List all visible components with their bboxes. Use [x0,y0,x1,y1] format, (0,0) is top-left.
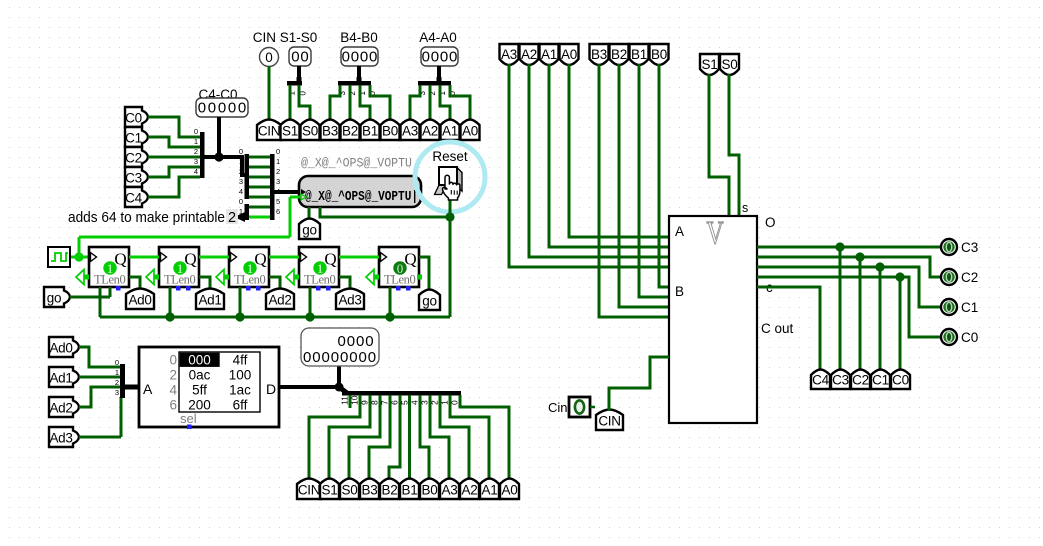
flip-flop cell TLen0 #5 [379,247,419,287]
wire [148,117,200,137]
flip-flop cell TLen0 #2 [159,247,199,287]
output pin A3 [401,120,420,141]
svg-text:Ad0: Ad0 [128,293,151,308]
output pin C3 (mid) [831,370,850,390]
svg-text:go: go [302,223,316,238]
svg-text:3: 3 [194,157,198,166]
bus wire [274,190,299,194]
wire [639,64,669,297]
wire [420,395,429,480]
input pin B3 (top) [590,44,609,65]
svg-text:6: 6 [169,398,177,413]
input pin C3 [125,167,148,187]
probe S1-S0 (value 00) [289,47,311,66]
wire [70,296,110,299]
input pin A1 (top) [540,44,559,65]
output pin B1 (bottom) [400,479,419,500]
svg-text:Ad1: Ad1 [198,293,221,308]
wire [269,277,280,290]
ALU subcircuit U3 [669,216,757,423]
svg-text:TLen0: TLen0 [384,273,415,287]
svg-text:C4: C4 [125,191,142,206]
svg-text:A1: A1 [482,483,498,498]
svg-text:Cin: Cin [548,400,568,415]
svg-text:C0: C0 [961,330,978,345]
wire [879,267,882,371]
output pin CIN [257,120,281,141]
svg-text:C1: C1 [125,131,142,146]
svg-text:S1: S1 [282,124,298,139]
input pin Cin (square) [569,397,590,417]
svg-text:4: 4 [169,383,177,398]
bus junction [335,383,344,392]
wire [269,256,299,259]
wire [410,85,420,119]
wire junction [875,262,884,271]
svg-text:D: D [266,381,276,397]
wire [249,176,270,179]
svg-text:B0: B0 [382,124,398,139]
svg-text:@_X@_^OPS@_VOPTU: @_X@_^OPS@_VOPTU [301,156,412,171]
svg-text:3: 3 [115,388,119,397]
bus wire [125,385,139,390]
svg-text:0: 0 [194,127,198,136]
svg-text:00: 00 [291,49,309,66]
svg-text:s: s [742,201,748,215]
svg-text:Ad3: Ad3 [338,293,361,308]
output pin C1 (mid) [871,370,890,390]
svg-text:1: 1 [276,157,280,166]
svg-text:CIN S1-S0: CIN S1-S0 [253,30,318,45]
input pin C0 [125,107,148,127]
svg-text:00000000: 00000000 [303,349,377,366]
wire junction [855,252,864,261]
svg-text:2: 2 [169,368,177,383]
wire [609,357,669,411]
wire junction [835,242,844,251]
output pin A0 (bottom) [500,479,519,500]
output pin B3 [321,120,340,141]
svg-text:A: A [675,224,684,239]
splitter S1-S0 [287,81,302,86]
wire [99,287,102,317]
svg-text:CIN: CIN [258,124,280,139]
wire [100,316,450,319]
output pin B3 (bottom) [360,479,379,500]
output pin C2 (LED circle) [941,269,957,285]
svg-text:1ac: 1ac [229,383,251,398]
svg-text:0: 0 [239,147,243,156]
output pin B2 (bottom) [380,479,399,500]
svg-text:C1: C1 [961,300,978,315]
svg-text:A2: A2 [422,124,438,139]
output pin C2 (mid) [851,370,870,390]
input pin B0 (top) [650,44,669,65]
svg-text:4ff: 4ff [233,353,248,368]
svg-text:B2: B2 [342,124,358,139]
svg-text:0: 0 [169,353,177,368]
svg-text:A: A [143,381,153,397]
output pin B1 [361,120,380,141]
splitter A4-A0 [418,81,451,86]
svg-text:A2: A2 [521,47,537,62]
probe A4-A0 (value 0000) [421,47,458,66]
output pin go [299,219,320,240]
svg-text:0ac: 0ac [189,368,211,383]
output pin A2 [421,120,440,141]
svg-text:Ad2: Ad2 [49,401,72,416]
svg-text:A3: A3 [402,124,418,139]
svg-text:S0: S0 [722,57,738,72]
input pin S1 (top) [700,54,719,75]
svg-text:2: 2 [228,210,236,226]
svg-text:C out: C out [761,321,794,336]
output pin C3 (LED circle) [941,239,957,255]
wire [339,277,350,290]
svg-text:1: 1 [115,368,119,377]
wire [659,64,669,287]
splitter B (2-bit, spine) [245,204,250,220]
svg-text:1: 1 [194,137,198,146]
output pin S0 (bottom) [340,479,359,500]
input pin Ad2 [49,397,79,417]
wire [289,197,292,237]
wire [129,277,140,290]
wire [460,395,509,480]
wire [430,395,449,480]
wire [370,85,390,119]
splitter A (5-bit, spine) [245,154,250,199]
input pin Ad3 [49,427,79,447]
ROM U2 [139,347,279,427]
bus wire [279,385,339,389]
wire [109,287,112,297]
wire [239,287,242,317]
wire [79,387,120,407]
output pin C0 (mid) [891,370,910,390]
svg-text:Ad0: Ad0 [49,341,72,356]
flip-flop cell TLen0 #3 [229,247,269,287]
output pin A0 [461,120,480,141]
wire junction [235,312,244,321]
wire [249,186,270,189]
wire [349,85,352,119]
wire [320,207,450,217]
keyboard component U1 [299,176,421,207]
svg-text:0: 0 [239,197,243,206]
button Reset [457,168,462,192]
svg-text:0000: 0000 [342,49,379,66]
wire [148,156,200,159]
svg-text:C0: C0 [125,111,142,126]
svg-text:A2: A2 [462,483,478,498]
input pin Ad0 [49,337,79,357]
input pin Ad1 [49,367,79,387]
svg-text:go: go [47,291,61,306]
svg-text:2: 2 [194,147,198,156]
wire [199,256,229,259]
svg-text:C2: C2 [852,373,869,388]
output pin CIN (mid) [596,410,623,431]
wire [297,66,301,80]
wire [339,256,379,259]
svg-text:TLen0: TLen0 [164,273,195,287]
wire [129,256,159,259]
svg-text:Ad1: Ad1 [49,371,72,386]
probe C4-C0 (value 00000) [196,98,248,117]
bus wire [204,157,245,175]
splitter B stem (wedge) [234,212,245,222]
output pin B0 [381,120,400,141]
svg-text:B4-B0: B4-B0 [340,30,378,45]
svg-text:A1: A1 [442,124,458,139]
bus junction [214,152,223,161]
wire [249,216,270,219]
svg-text:0: 0 [276,147,280,156]
output pin A2 (bottom) [460,479,479,500]
output pin go (right) [419,290,440,311]
svg-text:B0: B0 [422,483,438,498]
wire [757,267,941,307]
svg-text:S0: S0 [342,483,358,498]
wire [437,66,441,80]
wire [729,74,739,216]
output pin Ad3 [336,289,364,310]
svg-text:TLen0: TLen0 [304,273,335,287]
wire [148,167,200,177]
input pin C4 [125,187,148,207]
svg-text:B2: B2 [611,47,627,62]
svg-text:4: 4 [239,187,243,196]
constant 2 [226,209,238,224]
splitter D (12-bit) [339,387,347,393]
svg-text:B1: B1 [362,124,378,139]
svg-text:Ad2: Ad2 [268,293,291,308]
svg-text:2: 2 [239,167,243,176]
output pin C4 (mid) [811,370,830,390]
svg-text:B: B [675,284,684,299]
input pin A0 (top) [560,44,579,65]
input pin A2 (top) [520,44,539,65]
wire junction [445,212,454,221]
output pin B2 [341,120,360,141]
svg-text:B3: B3 [591,47,607,62]
halo (selection circle) [415,142,485,212]
svg-text:TLen0: TLen0 [94,273,125,287]
svg-text:C3: C3 [961,240,978,255]
svg-text:TLen0: TLen0 [234,273,265,287]
wire junction [895,272,904,281]
svg-text:A4-A0: A4-A0 [419,30,457,45]
wire [199,277,210,290]
wire [79,436,121,439]
bus wire [337,366,341,387]
input pin go (left) [44,287,70,307]
wire [549,64,669,247]
wire [619,64,669,307]
svg-text:S1: S1 [702,57,718,72]
wire [757,257,941,277]
wire [757,287,820,371]
svg-text:B2: B2 [382,483,398,498]
wire [569,64,669,237]
wire [309,395,360,480]
svg-text:0000: 0000 [338,333,375,350]
output pin Ad1 [196,289,224,310]
wire [309,287,312,317]
svg-text:C0: C0 [892,373,909,388]
wire [148,137,200,147]
wire [429,85,432,119]
wire [249,196,270,199]
svg-text:B1: B1 [631,47,647,62]
svg-text:B1: B1 [402,483,418,498]
svg-text:O: O [765,215,776,230]
svg-text:@_X@_^OPS@_VOPTU|: @_X@_^OPS@_VOPTU| [305,189,418,205]
wire [529,64,669,257]
svg-text:adds 64 to make printable: adds 64 to make printable [68,210,225,226]
svg-text:S0: S0 [302,124,318,139]
svg-text:sel: sel [180,411,197,426]
output pin S1 [281,120,300,141]
svg-text:C2: C2 [961,270,978,285]
wire [449,193,452,317]
wire [249,206,270,209]
svg-text:2: 2 [115,378,119,387]
svg-text:C4: C4 [812,373,829,388]
wire [440,85,450,119]
wire [509,64,669,267]
wire [308,207,311,219]
cursor (hand pointer) [443,175,460,200]
wire [450,395,489,480]
wire [349,395,380,480]
output pin A3 (bottom) [440,479,459,500]
svg-text:C3: C3 [125,171,142,186]
splitter B4-B0 [338,81,371,86]
wire [120,397,123,437]
svg-text:4: 4 [194,167,198,176]
output pin S0 [301,120,320,141]
input pin S0 (top) [720,54,739,75]
wire [899,277,902,371]
svg-text:100: 100 [229,368,252,383]
svg-text:C1: C1 [872,373,889,388]
svg-text:5: 5 [276,197,280,206]
splitter C4-C0 (spine) [200,132,205,178]
wire [590,406,595,409]
wire [450,85,470,119]
wire [408,395,411,480]
wire [217,117,221,157]
wire [148,177,200,197]
output pin C1 (LED circle) [941,299,957,315]
wire junction [165,312,174,321]
svg-text:1: 1 [239,157,243,166]
svg-text:CIN: CIN [298,483,320,498]
wire [78,237,81,257]
svg-text:11: 11 [340,396,350,405]
probe B4-B0 (value 0000) [341,47,378,66]
svg-text:3: 3 [239,177,243,186]
wire [357,66,361,80]
wire [169,287,172,317]
svg-text:0: 0 [265,50,273,65]
svg-text:A0: A0 [502,483,518,498]
svg-text:S1: S1 [322,483,338,498]
wire [249,156,270,159]
wire [440,395,469,480]
svg-text:A0: A0 [561,47,577,62]
wire [839,247,842,371]
wire [299,85,310,119]
svg-text:A3: A3 [442,483,458,498]
flip-flop cell TLen0 #1 [89,247,129,287]
wire [389,395,400,480]
output pin A1 [441,120,460,141]
clock CLK1 [48,247,70,267]
wire [599,64,669,317]
wire [757,277,941,337]
wire [389,287,392,317]
wire [290,196,300,199]
wire [79,347,120,367]
svg-text:6: 6 [276,207,280,216]
svg-text:Ad3: Ad3 [49,431,72,446]
wire [70,256,88,259]
wire [79,376,120,379]
svg-text:B3: B3 [362,483,378,498]
probe CIN (circle, value 0) [260,48,279,67]
input pin B2 (top) [610,44,629,65]
svg-text:V: V [707,215,724,252]
input pin C1 [125,127,148,147]
wire [329,395,370,480]
wire junction [385,312,394,321]
wire [249,166,270,169]
svg-text:2: 2 [276,167,280,176]
svg-text:B3: B3 [322,124,338,139]
wire [79,236,290,239]
splitter C (7-bit, spine) [270,154,275,220]
output pin S1 (bottom) [320,479,339,500]
svg-text:5ff: 5ff [192,383,207,398]
svg-text:C3: C3 [832,373,849,388]
wire [360,85,370,119]
svg-text:A3: A3 [501,47,517,62]
probe ROM output (0000 / 00000000) [301,328,379,366]
output pin CIN (bottom) [297,479,321,500]
input pin B1 (top) [630,44,649,65]
wire [419,257,429,291]
svg-text:3: 3 [276,177,280,186]
svg-text:0: 0 [115,358,119,367]
wire [268,66,271,119]
flip-flop cell TLen0 #4 [299,247,339,287]
wire [859,257,862,371]
svg-text:6ff: 6ff [233,398,248,413]
svg-text:CIN: CIN [598,414,620,429]
splitter ROM address (spine) [120,364,125,398]
wire [709,74,729,216]
wire [349,395,352,408]
wire junction [305,312,314,321]
wire [757,246,941,249]
output pin Ad0 [126,289,154,310]
wire junction [74,252,83,261]
svg-text:B0: B0 [651,47,667,62]
wire [330,85,340,119]
